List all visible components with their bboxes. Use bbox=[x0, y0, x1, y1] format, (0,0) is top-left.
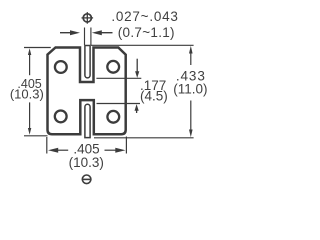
middle dimension .177: top extension line bbox=[96, 77, 141, 79]
polarity symbol minus (bottom) bbox=[82, 175, 91, 184]
svg-text:(0.7~1.1): (0.7~1.1) bbox=[118, 25, 175, 40]
bottom dimension .405: left arrow bbox=[48, 148, 68, 153]
middle dimension .177: bottom extension line bbox=[97, 103, 141, 105]
svg-text:(11.0): (11.0) bbox=[173, 81, 207, 96]
bottom dimension .405: right extension line bbox=[125, 137, 127, 154]
middle dimension .177: down arrow bbox=[135, 59, 139, 78]
bottom dimension .405: left extension line bbox=[46, 137, 48, 154]
left dimension .405: top extension line bbox=[24, 47, 51, 49]
left dimension .405: bottom extension line bbox=[24, 135, 48, 137]
hole bottom-right bbox=[107, 111, 119, 123]
svg-text:(10.3): (10.3) bbox=[69, 155, 104, 170]
negative terminal lead (bottom slot) bbox=[85, 104, 90, 137]
right dimension .433: down arrow bbox=[189, 101, 193, 138]
svg-text:(4.5): (4.5) bbox=[140, 89, 168, 104]
dimension arrow right (terminal width) bbox=[92, 30, 113, 35]
right dimension .433: up arrow bbox=[189, 46, 193, 65]
extension line terminal width right bbox=[90, 28, 92, 46]
right dimension .433: top extension line bbox=[91, 44, 194, 46]
hole bottom-left bbox=[55, 111, 67, 123]
hole top-right bbox=[107, 61, 119, 73]
bottom dimension .405: right arrow bbox=[105, 148, 126, 153]
svg-text:.027~.043: .027~.043 bbox=[111, 9, 178, 24]
right dimension .433: bottom extension line bbox=[94, 137, 194, 139]
hole top-left bbox=[55, 61, 67, 73]
dimension arrow left (terminal width) bbox=[60, 30, 80, 35]
left dimension .405: down arrow bbox=[28, 102, 31, 134]
extension line terminal width left bbox=[84, 28, 86, 46]
polarity symbol plus (top) bbox=[82, 12, 94, 24]
positive terminal lead (top slot) bbox=[85, 46, 90, 78]
middle dimension .177: up arrow bbox=[135, 104, 139, 113]
capacitor body outline (seat plate, bottom view) bbox=[48, 48, 126, 135]
svg-text:(10.3): (10.3) bbox=[10, 86, 44, 101]
left dimension .405: up arrow bbox=[28, 48, 31, 75]
